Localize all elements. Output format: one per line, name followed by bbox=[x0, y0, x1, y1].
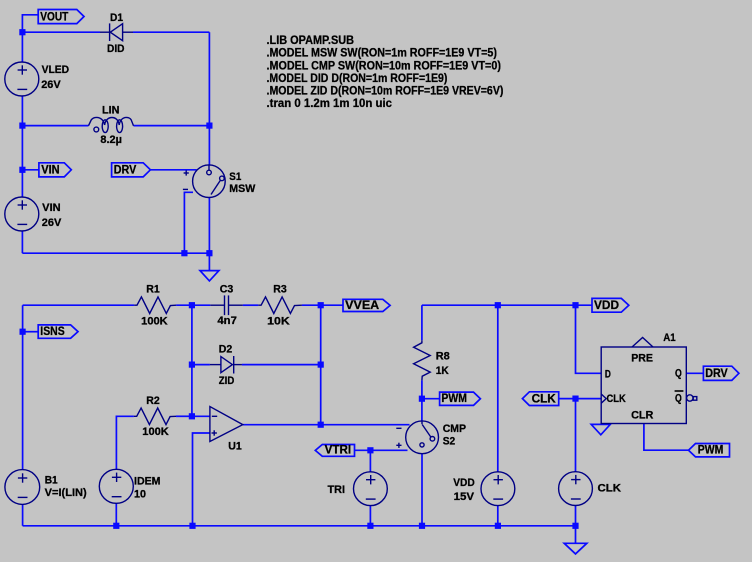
svg-text:CMP: CMP bbox=[443, 423, 466, 435]
svg-text:.tran 0 1.2m 1m 10n uic: .tran 0 1.2m 1m 10n uic bbox=[267, 96, 393, 110]
svg-text:B1: B1 bbox=[45, 475, 58, 487]
svg-text:4n7: 4n7 bbox=[217, 315, 237, 327]
svg-text:VIN: VIN bbox=[41, 163, 60, 177]
svg-text:100K: 100K bbox=[141, 315, 168, 327]
svg-text:R3: R3 bbox=[273, 284, 287, 296]
svg-text:S1: S1 bbox=[229, 171, 241, 183]
svg-text:ZID: ZID bbox=[219, 375, 235, 387]
svg-text:D1: D1 bbox=[110, 12, 123, 24]
svg-text:R1: R1 bbox=[146, 284, 160, 296]
svg-text:C3: C3 bbox=[220, 284, 234, 296]
svg-text:CLK: CLK bbox=[532, 391, 556, 405]
svg-text:VDD: VDD bbox=[453, 477, 475, 489]
svg-text:PWM: PWM bbox=[698, 443, 724, 457]
svg-text:IDEM: IDEM bbox=[134, 476, 161, 488]
svg-text:10: 10 bbox=[134, 489, 146, 501]
svg-text:15V: 15V bbox=[454, 491, 475, 503]
svg-text:ISNS: ISNS bbox=[40, 324, 64, 338]
svg-text:PWM: PWM bbox=[441, 391, 467, 405]
svg-text:CLK: CLK bbox=[598, 483, 622, 495]
svg-text:D: D bbox=[605, 369, 611, 381]
svg-text:VIN: VIN bbox=[42, 202, 61, 214]
svg-text:A1: A1 bbox=[663, 332, 676, 344]
svg-text:V=I(LIN): V=I(LIN) bbox=[45, 487, 87, 499]
svg-text:26V: 26V bbox=[42, 217, 62, 229]
svg-text:R2: R2 bbox=[146, 395, 160, 407]
svg-text:10K: 10K bbox=[267, 315, 290, 327]
svg-text:Q: Q bbox=[675, 393, 682, 405]
svg-text:VLED: VLED bbox=[42, 64, 70, 76]
svg-text:U1: U1 bbox=[228, 440, 242, 452]
svg-text:VOUT: VOUT bbox=[40, 9, 68, 23]
svg-text:D2: D2 bbox=[219, 343, 233, 355]
svg-text:S2: S2 bbox=[443, 435, 456, 447]
svg-text:PRE: PRE bbox=[631, 353, 653, 365]
svg-text:100K: 100K bbox=[142, 426, 169, 438]
svg-text:R8: R8 bbox=[436, 350, 450, 362]
svg-text:LIN: LIN bbox=[102, 105, 120, 117]
svg-text:DRV: DRV bbox=[114, 163, 137, 177]
svg-text:VVEA: VVEA bbox=[345, 298, 379, 312]
svg-text:MSW: MSW bbox=[229, 183, 256, 195]
svg-text:DRV: DRV bbox=[705, 366, 728, 380]
svg-text:CLK: CLK bbox=[607, 393, 626, 405]
svg-text:TRI: TRI bbox=[328, 484, 346, 496]
svg-text:VTRI: VTRI bbox=[325, 442, 352, 456]
svg-text:26V: 26V bbox=[41, 79, 61, 91]
svg-text:DID: DID bbox=[107, 43, 125, 55]
svg-text:8.2µ: 8.2µ bbox=[100, 134, 122, 146]
svg-text:VDD: VDD bbox=[594, 298, 619, 312]
svg-text:1K: 1K bbox=[436, 365, 449, 377]
svg-text:CLR: CLR bbox=[631, 410, 653, 422]
svg-text:Q: Q bbox=[675, 368, 682, 380]
